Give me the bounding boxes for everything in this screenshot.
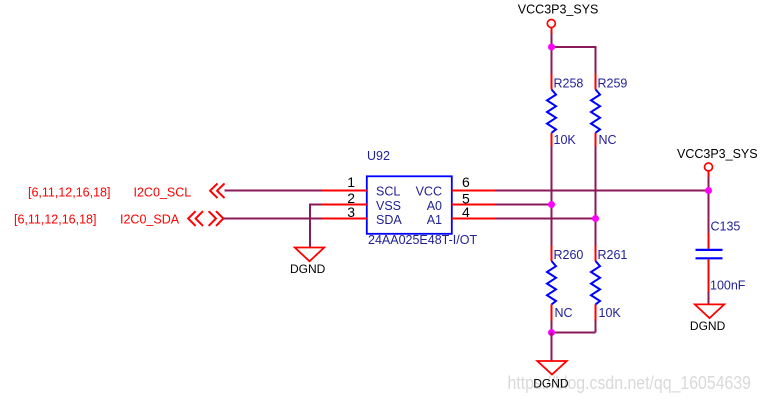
svg-text:3: 3	[347, 204, 355, 220]
svg-text:10K: 10K	[599, 306, 622, 320]
svg-text:100nF: 100nF	[710, 278, 746, 292]
svg-text:U92: U92	[367, 149, 390, 163]
wire column 2 mid	[595, 146, 597, 246]
svg-text:A0: A0	[427, 199, 442, 213]
op IC U92 24AA025E48T-I/OT	[367, 149, 478, 247]
wire to ground (resistors)	[551, 333, 553, 362]
ground DGND (resistors)	[533, 361, 569, 391]
junction A0 / column1	[548, 201, 555, 208]
svg-text:VCC: VCC	[416, 185, 442, 199]
port I2C0_SDA (bidirectional chevrons)	[188, 211, 223, 226]
wire VSS pin 2 to ground drop	[310, 204, 322, 206]
resistor R261	[591, 246, 627, 321]
wire column 1 mid	[551, 146, 553, 246]
junction A1 / column2	[592, 215, 599, 222]
port I2C0_SCL (input chevrons)	[210, 183, 224, 198]
junction top power	[548, 44, 555, 51]
svg-text:R259: R259	[598, 76, 628, 90]
svg-text:R260: R260	[554, 248, 584, 262]
svg-text:VCC3P3_SYS: VCC3P3_SYS	[518, 3, 599, 17]
svg-text:SCL: SCL	[376, 185, 400, 199]
svg-text:SDA: SDA	[376, 213, 402, 227]
capacitor C135	[696, 220, 746, 293]
svg-text:I2C0_SDA: I2C0_SDA	[120, 213, 180, 227]
wire A0 net pin5 to column 1	[495, 204, 552, 206]
wire top power to columns	[551, 34, 553, 75]
svg-text:6: 6	[462, 174, 470, 190]
svg-text:DGND: DGND	[690, 319, 726, 333]
ground DGND (left, VSS)	[290, 248, 326, 277]
wire I2C0_SCL to pin 1	[225, 190, 323, 192]
svg-text:[6,11,12,16,18]: [6,11,12,16,18]	[28, 185, 110, 199]
svg-text:DGND: DGND	[290, 262, 326, 276]
wire VCC net pin6 to capacitor column	[495, 190, 709, 192]
svg-text:NC: NC	[599, 133, 617, 147]
pin 5 (A0)	[452, 204, 495, 206]
svg-text:C135: C135	[711, 220, 741, 234]
svg-text:I2C0_SCL: I2C0_SCL	[134, 185, 192, 199]
svg-text:[6,11,12,16,18]: [6,11,12,16,18]	[14, 213, 96, 227]
power port VCC3P3_SYS (right)	[677, 147, 758, 177]
svg-text:NC: NC	[555, 306, 573, 320]
svg-text:VCC3P3_SYS: VCC3P3_SYS	[677, 147, 758, 161]
ground DGND (capacitor)	[690, 304, 726, 333]
junction VCC net / capacitor	[705, 187, 712, 194]
pin 1 (SCL)	[322, 190, 367, 192]
wire capacitor to ground	[708, 292, 710, 304]
svg-text:1: 1	[347, 174, 355, 190]
resistor R260	[547, 246, 583, 321]
svg-text:A1: A1	[427, 213, 442, 227]
svg-text:VSS: VSS	[376, 199, 401, 213]
svg-text:R261: R261	[598, 248, 628, 262]
wire capacitor column top	[708, 177, 710, 233]
resistor R259	[591, 74, 627, 147]
power port VCC3P3_SYS (top)	[518, 3, 599, 34]
wire I2C0_SDA to pin 3	[224, 218, 323, 220]
wire A1 net pin4 to column 2	[495, 218, 596, 220]
svg-text:R258: R258	[554, 76, 584, 90]
pin 6 (VCC)	[452, 190, 495, 192]
pin 4 (A1)	[452, 218, 495, 220]
resistor R258	[547, 74, 583, 147]
junction resistor bottom	[548, 329, 555, 336]
svg-text:4: 4	[462, 204, 470, 220]
svg-text:24AA025E48T-I/OT: 24AA025E48T-I/OT	[368, 233, 477, 247]
wire resistor bottoms join	[551, 321, 596, 334]
pin 3 (SDA)	[322, 218, 367, 220]
svg-text:DGND: DGND	[533, 377, 569, 391]
svg-text:10K: 10K	[554, 133, 577, 147]
pin 2 (VSS)	[322, 204, 367, 206]
